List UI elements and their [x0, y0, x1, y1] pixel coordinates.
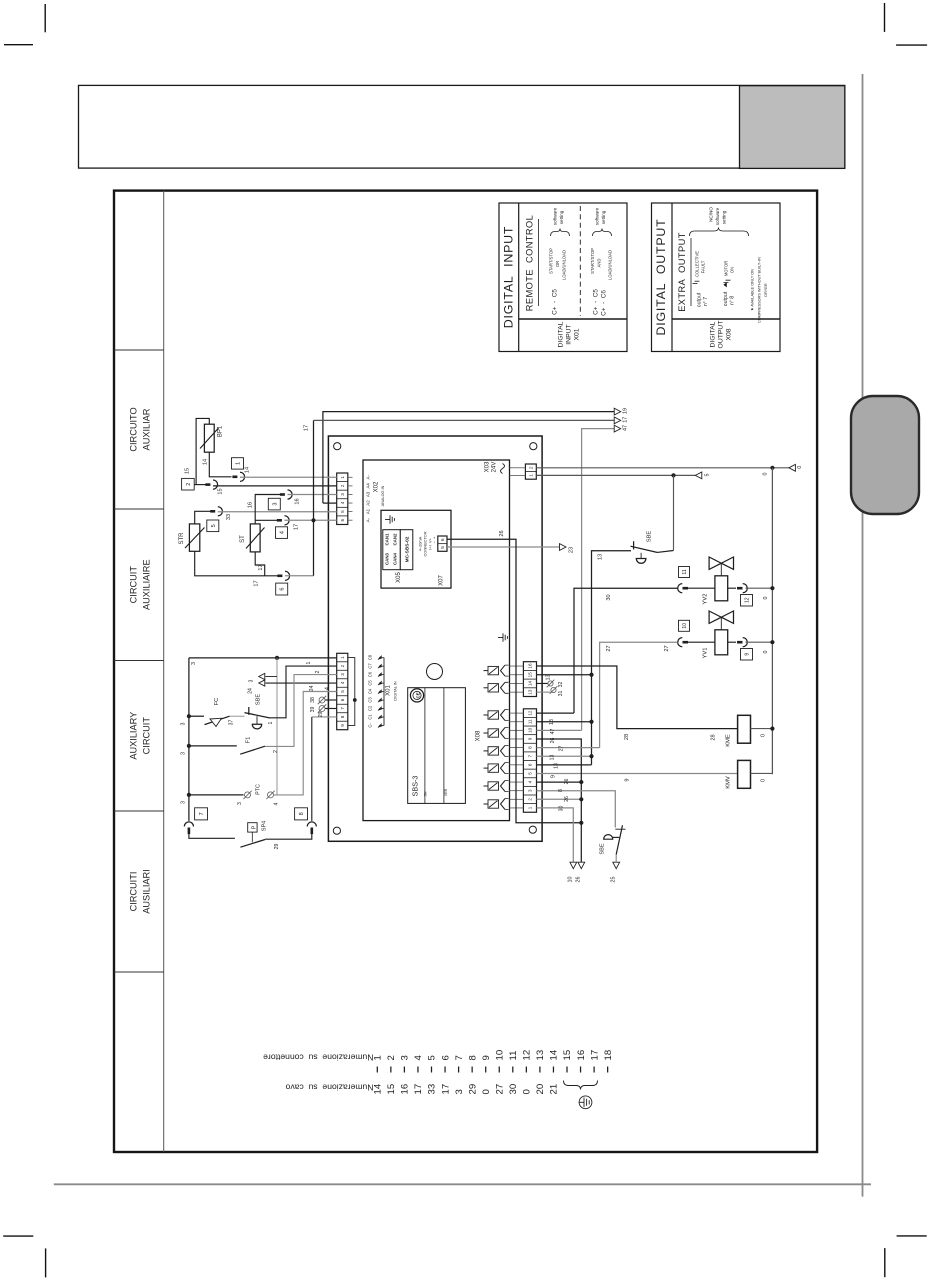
svg-text:9: 9	[528, 737, 533, 740]
svg-text:7: 7	[454, 1055, 465, 1060]
svg-text:COMPRESSORS WITHOUT BUILT–IN: COMPRESSORS WITHOUT BUILT–IN	[758, 257, 762, 323]
svg-text:REMOTE CONTROL: REMOTE CONTROL	[525, 215, 535, 311]
svg-text:4: 4	[528, 780, 533, 783]
relay contacts K1-K8	[484, 665, 509, 809]
svg-text:X08: X08	[726, 328, 733, 340]
svg-text:9: 9	[551, 775, 557, 778]
switch SBE right	[631, 531, 674, 564]
bus 3 vertical	[181, 658, 191, 821]
wire 13 pin11	[537, 719, 594, 725]
svg-text:10: 10	[682, 623, 688, 629]
gray corner block	[740, 86, 845, 169]
svg-text:DIGITAL: DIGITAL	[710, 321, 717, 347]
svg-text:7: 7	[199, 812, 205, 815]
svg-text:1: 1	[235, 462, 241, 465]
svg-text:AUXILIAR: AUXILIAR	[142, 408, 152, 450]
arrow 3	[249, 673, 278, 682]
wire 2 to X01 pin3	[265, 670, 337, 753]
svg-text:CIRCUIT: CIRCUIT	[129, 566, 139, 604]
arrow 19	[614, 408, 628, 415]
svg-text:16: 16	[576, 1050, 587, 1061]
wire 13 pin6	[537, 763, 592, 769]
wire ST bottom jog	[255, 552, 265, 576]
svg-text:software: software	[595, 207, 600, 225]
svg-text:START/STOP: START/STOP	[590, 248, 595, 274]
rail 0 from X03 pin2	[536, 466, 789, 476]
svg-text:setting: setting	[601, 210, 606, 224]
svg-text:A-: A-	[366, 475, 371, 480]
svg-text:1: 1	[340, 656, 345, 659]
junction box 5 / wire 33	[207, 514, 232, 532]
wire 32 pin14 cut	[537, 680, 565, 688]
coil KMV	[726, 760, 751, 788]
svg-text:BP1: BP1	[218, 425, 224, 437]
svg-text:X08: X08	[476, 730, 482, 741]
junction box 1	[232, 458, 244, 469]
arrow 17	[614, 417, 628, 424]
svg-text:C8: C8	[368, 654, 373, 660]
svg-text:4: 4	[274, 802, 280, 805]
connector strip X08 pins 12-1	[523, 709, 536, 812]
svg-text:AND: AND	[597, 259, 602, 268]
svg-text:5: 5	[427, 1055, 438, 1060]
label AUXILIARY CIRCUIT	[129, 712, 152, 760]
svg-text:2: 2	[340, 484, 345, 487]
hook box8	[295, 808, 317, 834]
schematic frame	[114, 191, 817, 1152]
wire 26 pin2	[537, 796, 584, 802]
svg-text:X01: X01	[386, 685, 392, 696]
cable brace 15-17	[564, 1081, 598, 1090]
wire 13 pin7	[537, 754, 594, 760]
svg-text:SP4: SP4	[262, 821, 268, 832]
svg-text:X01: X01	[574, 328, 581, 340]
bus 0 vertical	[771, 468, 773, 774]
switch FC	[189, 698, 235, 727]
svg-text:1: 1	[373, 1055, 384, 1060]
svg-text:1: 1	[306, 661, 312, 664]
svg-text:26: 26	[499, 530, 505, 536]
svg-text:8: 8	[340, 715, 345, 718]
wire 13 pin15	[537, 673, 594, 681]
wire 9 from pin5 to KMV	[537, 773, 738, 781]
hook YV1 left	[678, 638, 688, 647]
svg-text:13: 13	[550, 755, 556, 761]
hook 15	[205, 480, 223, 495]
junction box 3	[268, 498, 280, 510]
table header Numerazione su cavo	[285, 1083, 373, 1093]
svg-text:X05: X05	[396, 572, 402, 583]
svg-text:1: 1	[529, 474, 535, 477]
svg-text:8: 8	[299, 812, 305, 815]
wire 30 pin1	[537, 806, 574, 862]
sensor PTC	[189, 784, 280, 805]
svg-text:11: 11	[508, 1051, 519, 1061]
svg-text:2: 2	[340, 664, 345, 667]
wire 8 pin3 to SBE	[537, 789, 616, 828]
legend box DIGITAL OUTPUT	[652, 203, 781, 352]
svg-text:2: 2	[273, 750, 279, 753]
SBS-3 label box	[408, 688, 466, 804]
svg-text:3: 3	[340, 493, 345, 496]
svg-text:14: 14	[245, 467, 251, 473]
svg-text:24: 24	[248, 688, 254, 694]
wire YV2 to bus 0	[746, 586, 775, 599]
svg-text:3: 3	[272, 503, 278, 506]
svg-text:A-: A-	[366, 517, 371, 522]
label CIRCUITI AUSILIARI	[129, 869, 152, 913]
wire 5 drop to SBE	[673, 475, 675, 550]
svg-text:6: 6	[340, 698, 345, 701]
svg-text:14: 14	[549, 1049, 560, 1060]
svg-text:NC/NO: NC/NO	[709, 207, 714, 222]
svg-text:31: 31	[558, 691, 564, 697]
svg-text:16: 16	[528, 663, 533, 669]
svg-text:COLLECTIVE: COLLECTIVE	[695, 251, 700, 277]
svg-text:4: 4	[340, 681, 345, 684]
svg-text:C+ - C5: C+ - C5	[552, 289, 559, 315]
connector strip pins 16-13	[523, 662, 536, 697]
svg-text:6: 6	[528, 763, 533, 766]
svg-text:21: 21	[549, 1084, 560, 1095]
wire 27 rail	[600, 642, 678, 748]
svg-text:7: 7	[340, 707, 345, 710]
svg-text:23: 23	[569, 547, 575, 553]
wire 31 pin13 cut	[537, 686, 565, 696]
junction box 4	[276, 527, 288, 539]
connector X01 terminal strip	[337, 653, 348, 729]
svg-text:X07: X07	[439, 575, 445, 586]
svg-text:15: 15	[562, 1050, 573, 1061]
svg-text:A2: A2	[366, 500, 371, 506]
svg-text:ON: ON	[730, 267, 735, 273]
svg-text:3: 3	[181, 752, 187, 755]
hook 33	[210, 507, 222, 516]
svg-text:37: 37	[229, 720, 235, 726]
svg-text:KMV: KMV	[726, 776, 732, 789]
switch SP4	[189, 821, 312, 850]
svg-text:output: output	[697, 292, 703, 307]
svg-text:1: 1	[340, 476, 345, 479]
wire 17 upper hook branch	[255, 519, 277, 521]
svg-text:13: 13	[598, 554, 604, 560]
svg-text:15: 15	[528, 672, 533, 678]
svg-text:10: 10	[568, 877, 574, 883]
arrow 24 / wire 24 to pin4	[248, 680, 337, 694]
svg-text:12: 12	[744, 597, 750, 603]
svg-text:software: software	[553, 207, 558, 225]
svg-text:1: 1	[268, 721, 274, 724]
svg-text:4: 4	[325, 687, 331, 690]
svg-text:26: 26	[576, 877, 582, 883]
svg-text:27: 27	[664, 645, 670, 651]
table header Numerazione su connettore	[263, 1053, 374, 1063]
X08 label	[476, 730, 482, 741]
svg-text:26: 26	[564, 779, 570, 785]
svg-text:1: 1	[528, 806, 533, 809]
svg-text:setting: setting	[722, 210, 727, 224]
svg-text:5: 5	[705, 474, 711, 477]
wire YV1 to bus 0	[746, 640, 775, 653]
wire 47 rail	[582, 429, 615, 731]
svg-text:4: 4	[340, 501, 345, 504]
svg-text:C+ - C5: C+ - C5	[593, 289, 600, 315]
wire 38 pin6 cut	[310, 696, 337, 704]
svg-text:C3: C3	[368, 697, 373, 703]
svg-text:Numerazione su connettore: Numerazione su connettore	[263, 1053, 374, 1063]
svg-text:4: 4	[279, 531, 285, 534]
svg-text:OUTPUT: OUTPUT	[718, 321, 725, 349]
svg-text:C6: C6	[368, 671, 373, 677]
wire 39 pin7 cut	[310, 704, 337, 712]
wire 13 from SBE	[592, 551, 632, 765]
junction box 6	[276, 583, 288, 595]
buzzer circle	[427, 664, 443, 680]
svg-text:X02: X02	[374, 481, 380, 492]
svg-text:9: 9	[625, 778, 631, 781]
svg-text:3: 3	[181, 723, 187, 726]
svg-text:★ AVAILABLE ONLY ON: ★ AVAILABLE ONLY ON	[751, 269, 755, 311]
svg-text:5: 5	[528, 772, 533, 775]
svg-text:6: 6	[340, 518, 345, 521]
svg-text:AUSILIARI: AUSILIARI	[142, 869, 152, 913]
svg-text:DIGITAL IN: DIGITAL IN	[394, 681, 398, 700]
svg-text:13: 13	[528, 689, 533, 695]
box 9	[741, 649, 753, 661]
svg-text:26: 26	[550, 738, 556, 744]
svg-text:output: output	[723, 291, 729, 306]
arrow 26 down	[576, 862, 585, 882]
wire 16 to X02 pin3	[288, 494, 337, 496]
svg-text:0: 0	[763, 473, 769, 476]
svg-text:13: 13	[549, 719, 555, 725]
svg-text:14: 14	[528, 680, 533, 686]
svg-text:17: 17	[623, 417, 629, 423]
module X05/X07 box	[381, 510, 451, 588]
box 10	[679, 620, 690, 631]
svg-text:0: 0	[763, 597, 769, 600]
svg-text:FC: FC	[214, 698, 220, 706]
svg-text:0: 0	[761, 734, 767, 737]
svg-text:47: 47	[623, 425, 629, 431]
wire 26 pin4	[537, 779, 584, 785]
label CIRCUIT AUXILIAIRE	[129, 559, 152, 610]
svg-text:5: 5	[211, 524, 217, 527]
svg-text:SBS-3: SBS-3	[411, 776, 420, 797]
connector X03 24V	[485, 461, 537, 479]
svg-text:ANALOG IN: ANALOG IN	[381, 485, 385, 506]
svg-text:C-: C-	[368, 723, 373, 728]
wire 29 pin8	[312, 712, 337, 821]
svg-text:CIRCUITO: CIRCUITO	[129, 407, 139, 451]
svg-text:3: 3	[454, 1089, 465, 1094]
svg-text:Numerazione su cavo: Numerazione su cavo	[285, 1083, 373, 1093]
wire 26 from X07	[447, 530, 583, 825]
thermistor STR	[179, 524, 205, 551]
transducer BP1	[200, 424, 224, 452]
svg-text:C2: C2	[368, 705, 373, 711]
svg-text:8: 8	[528, 746, 533, 749]
svg-text:3: 3	[181, 801, 187, 804]
valve YV2	[703, 557, 734, 604]
svg-text:9: 9	[340, 724, 345, 727]
svg-text:EXTRA OUTPUT: EXTRA OUTPUT	[677, 232, 687, 312]
arrow 5	[695, 472, 710, 479]
svg-text:17: 17	[294, 524, 300, 530]
svg-text:33: 33	[427, 1084, 438, 1095]
wire FC-SBE	[230, 715, 245, 717]
svg-text:13: 13	[554, 763, 560, 769]
svg-text:17: 17	[254, 580, 260, 586]
wire 47 pin10	[537, 729, 582, 735]
svg-text:CAN3: CAN3	[385, 552, 390, 565]
svg-text:2: 2	[315, 670, 321, 673]
svg-text:MOTOR: MOTOR	[724, 261, 729, 277]
svg-text:YV2: YV2	[703, 594, 709, 605]
hook 17 upper	[277, 516, 300, 530]
wire KME to bus 0	[751, 727, 775, 738]
svg-text:29: 29	[318, 712, 324, 718]
svg-text:A3: A3	[366, 491, 371, 497]
arrow 47	[614, 425, 628, 432]
wire 23	[447, 544, 575, 554]
svg-text:12: 12	[528, 710, 533, 716]
hook YV2 left	[678, 584, 688, 593]
wire 1 to X01 pin2	[268, 661, 337, 724]
wire 14 to X02 pin1	[240, 476, 337, 478]
svg-text:27: 27	[494, 1084, 505, 1095]
hook 14	[232, 467, 250, 482]
board earth symbol	[498, 633, 507, 641]
svg-text:28: 28	[711, 734, 717, 740]
box 11	[679, 567, 690, 578]
svg-text:2: 2	[528, 798, 533, 801]
svg-text:3: 3	[191, 662, 197, 665]
wire 26 pin9	[537, 738, 582, 862]
svg-text:INPUT: INPUT	[566, 324, 573, 344]
wire 19 top rail	[323, 412, 614, 504]
svg-text:CIRCUITI: CIRCUITI	[129, 872, 139, 912]
svg-text:17: 17	[304, 425, 310, 431]
wire 15 to X02 pin2	[194, 485, 337, 486]
svg-text:SBE: SBE	[600, 843, 606, 854]
svg-text:3: 3	[237, 802, 243, 805]
svg-text:setting: setting	[559, 210, 564, 224]
svg-text:3: 3	[528, 789, 533, 792]
svg-text:0: 0	[761, 779, 767, 782]
svg-text:– +: – +	[432, 536, 437, 543]
svg-text:39: 39	[310, 707, 316, 713]
svg-text:6: 6	[280, 588, 286, 591]
wire KMV to bus 0	[751, 773, 773, 782]
svg-text:28: 28	[624, 734, 630, 740]
svg-text:7: 7	[528, 754, 533, 757]
svg-text:38: 38	[310, 697, 316, 703]
svg-text:LOAD/UNLOAD: LOAD/UNLOAD	[562, 250, 567, 280]
arrow 10 down	[568, 862, 577, 882]
controller outer box	[328, 436, 542, 841]
valve YV1	[703, 611, 734, 658]
wire 4 to X01 pin5	[274, 687, 337, 795]
svg-text:SBE: SBE	[647, 531, 653, 543]
svg-text:X03: X03	[485, 461, 491, 472]
svg-text:9: 9	[481, 1055, 492, 1060]
svg-text:KME: KME	[726, 734, 732, 747]
svg-text:5: 5	[340, 510, 345, 513]
svg-text:32: 32	[558, 682, 564, 688]
protective earth symbol	[579, 1096, 592, 1109]
svg-text:47: 47	[550, 729, 556, 735]
svg-text:0: 0	[522, 1089, 533, 1094]
svg-text:VER: VER	[444, 788, 448, 796]
svg-text:10: 10	[528, 727, 533, 733]
X02 internal labels	[348, 475, 385, 523]
wire 30 rail	[574, 588, 678, 713]
svg-text:24V: 24V	[492, 462, 498, 473]
YV2 body leads	[685, 587, 736, 589]
connector X02 terminal strip	[337, 473, 348, 524]
right separator line	[862, 74, 864, 1197]
wire BP1 bottom / 14	[203, 452, 232, 477]
svg-text:18: 18	[603, 1050, 614, 1061]
svg-text:2: 2	[186, 483, 192, 486]
wire 33 STR top to X02 pin5	[195, 511, 337, 524]
svg-text:CIRCUIT: CIRCUIT	[142, 717, 152, 755]
svg-text:C+ - C6: C+ - C6	[601, 290, 608, 316]
svg-text:ST: ST	[240, 535, 246, 543]
svg-text:12: 12	[522, 1050, 533, 1061]
svg-text:11: 11	[682, 569, 688, 574]
svg-text:29: 29	[274, 844, 280, 850]
svg-text:LOAD/UNLOAD: LOAD/UNLOAD	[608, 250, 613, 280]
svg-text:16: 16	[248, 502, 254, 508]
svg-text:13: 13	[535, 1050, 546, 1061]
svg-text:6: 6	[440, 1055, 451, 1060]
svg-text:AUXILIARY: AUXILIARY	[129, 712, 139, 760]
svg-text:15: 15	[185, 468, 191, 474]
thermistor ST	[240, 524, 265, 552]
svg-text:MC-SBS-02: MC-SBS-02	[405, 536, 411, 562]
wire BP1 top to 15	[196, 418, 209, 484]
svg-text:14: 14	[373, 1083, 384, 1094]
wire 17 top rail	[314, 419, 615, 421]
svg-text:0: 0	[481, 1089, 492, 1094]
svg-text:CE: CE	[415, 692, 420, 698]
wire 17 to X02 pin6	[285, 518, 337, 522]
svg-text:5: 5	[440, 546, 446, 549]
svg-text:CAN1: CAN1	[385, 533, 390, 546]
svg-text:14: 14	[203, 459, 209, 465]
hook YV2 right	[737, 584, 747, 593]
svg-text:software: software	[715, 207, 720, 225]
legend box DIGITAL INPUT	[499, 203, 627, 352]
junction box 2 / wire 15	[182, 468, 195, 490]
label column divider	[163, 191, 165, 1152]
svg-text:10: 10	[494, 1050, 505, 1061]
rail 5 from X03 pin1	[536, 473, 695, 477]
svg-text:A4: A4	[366, 483, 371, 489]
svg-text:27: 27	[606, 645, 612, 651]
bus wire 17 vertical	[304, 420, 314, 575]
label CIRCUITO AUXILIAR	[129, 407, 152, 451]
YV1 body leads	[685, 641, 736, 643]
svg-text:16: 16	[295, 498, 301, 504]
hook 17 lower	[254, 571, 290, 586]
svg-text:17: 17	[440, 1084, 451, 1095]
svg-text:4: 4	[413, 1055, 424, 1061]
hook YV1 right	[737, 638, 747, 647]
hook 16	[248, 490, 301, 508]
